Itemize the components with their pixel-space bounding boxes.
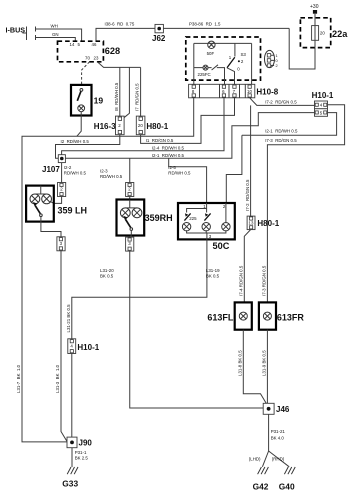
wire I8 RD/WH 0.5 to H16-3 xyxy=(119,67,121,116)
switch lever A in 50C label 225 xyxy=(184,213,190,220)
lamp 3 in 50C xyxy=(222,223,230,231)
svg-text:225FC: 225FC xyxy=(198,72,211,77)
svg-text:I2-3: I2-3 xyxy=(100,168,108,173)
wire 225FC to H10-8 pin 8 xyxy=(193,68,195,85)
svg-text:J62: J62 xyxy=(152,34,166,43)
connector position indicator oval xyxy=(265,50,279,68)
wire 359LH pin 3 ground xyxy=(41,217,61,237)
svg-text:H80-1: H80-1 xyxy=(146,122,168,131)
svg-text:I-BUS: I-BUS xyxy=(6,26,26,35)
svg-text:WH: WH xyxy=(51,24,58,29)
svg-text:RD/WH 0.5: RD/WH 0.5 xyxy=(100,174,123,179)
svg-text:359RH: 359RH xyxy=(145,213,173,223)
svg-text:I2 RD/WH 0.5: I2 RD/WH 0.5 xyxy=(61,139,90,144)
wire 628 pin 23 illumination feed xyxy=(97,62,140,68)
svg-text:I1 RD/GN 0.5: I1 RD/GN 0.5 xyxy=(146,138,174,143)
svg-text:BK 2.5: BK 2.5 xyxy=(75,456,89,461)
svg-text:BK 4.0: BK 4.0 xyxy=(271,435,285,440)
wire I1 RD/GN 0.5 H80-1 to H10-8 pin 7 xyxy=(141,98,235,144)
wire I7-3 RD/GN 0.5 pin 4 right to 613FR xyxy=(267,105,344,303)
svg-text:J107: J107 xyxy=(42,165,60,174)
wire I7-2 RD/GN 0.5 pin 10 to H10-1 pin 4 xyxy=(250,98,315,106)
svg-text:628: 628 xyxy=(105,46,120,56)
lamp tie wire in 359RH xyxy=(125,200,137,208)
ground bus wire to J90 xyxy=(22,98,194,442)
junction J46 xyxy=(263,403,274,414)
svg-text:BK 0.5: BK 0.5 xyxy=(206,274,220,279)
S3 lever xyxy=(227,57,235,68)
svg-text:(LHD): (LHD) xyxy=(249,456,261,461)
lamp A in 359RH xyxy=(120,208,130,218)
lamp in 19 xyxy=(78,105,85,112)
svg-text:L31-21 BK 0.5: L31-21 BK 0.5 xyxy=(66,304,71,333)
headlamp switch dashed box xyxy=(186,37,261,80)
wire I7 RD/GN 0.5 to H80-1 xyxy=(140,67,142,116)
svg-text:RD/WH 0.5: RD/WH 0.5 xyxy=(64,171,87,176)
svg-text:613FL: 613FL xyxy=(207,313,234,323)
svg-text:L31-9 BK 0.5: L31-9 BK 0.5 xyxy=(262,350,267,376)
I-BUS connector ticks xyxy=(35,27,37,41)
wire I38-6 RD 0.75 top bus from 628 pin 46 to right xyxy=(96,28,289,41)
svg-text:13: 13 xyxy=(249,220,254,225)
svg-text:I38-6 RD 0.75: I38-6 RD 0.75 xyxy=(105,22,135,27)
lamp in 613FR xyxy=(263,312,271,320)
ground branch LHD xyxy=(262,451,268,467)
svg-text:I2-1 RD/WH 0.5: I2-1 RD/WH 0.5 xyxy=(265,129,298,134)
svg-text:613FR: 613FR xyxy=(277,313,305,323)
wire conn2 into 359LH xyxy=(50,197,61,204)
svg-text:50F: 50F xyxy=(207,51,215,56)
contact circle in 359LH xyxy=(40,214,43,217)
lamp 2 in 50C xyxy=(202,223,210,231)
wire I7-2 branch to H80-1 pin 13 xyxy=(250,105,252,216)
wire I2-3 to 359RH xyxy=(129,158,131,182)
ground G40 xyxy=(284,467,295,474)
wire L31-9 BK 0.5 from 613FR to J46 xyxy=(266,330,268,404)
switch box 19 xyxy=(71,85,92,116)
wire GN from I-BUS to 628 pin 14 xyxy=(36,38,76,42)
fuse 20 xyxy=(312,26,319,41)
feed wire inside 50C xyxy=(187,203,207,213)
svg-text:J90: J90 xyxy=(79,438,93,447)
svg-text:I7-2 RD/GN 0.5: I7-2 RD/GN 0.5 xyxy=(265,99,297,104)
S3 common to pin 7 xyxy=(227,68,235,85)
svg-text:G40: G40 xyxy=(279,482,295,492)
svg-text:S3: S3 xyxy=(241,52,247,57)
wire P31-21 BK 4.0 xyxy=(268,414,270,451)
switch lever B in 50C xyxy=(204,213,210,220)
wire lamp3 to pin 2 xyxy=(225,203,227,223)
svg-text:I7-2 RD/GN 0.5: I7-2 RD/GN 0.5 xyxy=(245,179,250,211)
fog lamp 613FR box xyxy=(259,302,276,329)
connector H80-1 pin 13 xyxy=(247,216,255,230)
lamp tie wire in 359LH xyxy=(35,186,47,194)
wire lamp 19 to ground bus xyxy=(77,112,81,137)
svg-text:20: 20 xyxy=(320,31,325,36)
ground branch RHD xyxy=(269,451,290,467)
svg-text:G33: G33 xyxy=(62,479,78,489)
connector 2 of 359RH xyxy=(126,183,134,197)
connector H16-3 xyxy=(116,116,125,135)
lamp A in 359LH xyxy=(30,194,40,204)
svg-text:I7 RD/GN 0.5: I7 RD/GN 0.5 xyxy=(135,83,140,111)
selector arrow in 359RH xyxy=(126,220,131,228)
svg-text:+30: +30 xyxy=(310,4,319,10)
lamp bottoms tie to pin 3 xyxy=(187,230,226,239)
wire I7-4 RD/GN 0.5 to 613FL xyxy=(244,230,250,303)
svg-text:L31-3 BK 1.0: L31-3 BK 1.0 xyxy=(55,364,60,393)
connector H10-1 top right xyxy=(315,101,328,116)
connector 2 of 359LH xyxy=(58,183,66,197)
svg-text:H10-8: H10-8 xyxy=(256,88,278,97)
lamp 1 in 50C xyxy=(182,223,190,231)
lamp B in 359LH xyxy=(42,194,52,204)
svg-text:I2-4 RD/WH 0.5: I2-4 RD/WH 0.5 xyxy=(152,146,185,151)
ground G33 xyxy=(67,467,78,474)
svg-text:L31-7 BK 1.0: L31-7 BK 1.0 xyxy=(16,364,21,393)
wire stub to H16-3 top xyxy=(121,67,130,120)
wire P31-1 BK 2.5 to G33 xyxy=(71,448,73,467)
svg-text:19: 19 xyxy=(94,95,104,105)
wire I2-1 RD/WH 0.5 right to 50C pin 2 riser xyxy=(242,113,337,136)
I-BUS bracket xyxy=(23,27,27,41)
ground G42 xyxy=(258,467,269,474)
svg-text:70: 70 xyxy=(85,56,90,61)
switch contact in 19 xyxy=(80,89,83,92)
dashed wire 628 pin 70 to switch 19 xyxy=(82,62,90,85)
svg-text:359 LH: 359 LH xyxy=(58,205,88,215)
wire to 50C pin 2 xyxy=(226,135,242,203)
wire I2-2 RD/WH 0.5 J107 to 359LH xyxy=(61,163,63,183)
connector 3 of 359LH xyxy=(57,237,65,251)
wire 50F row xyxy=(194,43,252,67)
svg-text:RD/WH 0.5: RD/WH 0.5 xyxy=(168,171,191,176)
svg-text:P38-86 RD 1.5: P38-86 RD 1.5 xyxy=(189,22,221,27)
svg-text:I2-1 RD/WH 0.5: I2-1 RD/WH 0.5 xyxy=(152,153,185,158)
wire top row to pin 10 xyxy=(251,43,253,84)
wire L31-21 BK 0.5 to J90 xyxy=(71,354,73,438)
svg-text:G42: G42 xyxy=(253,482,269,492)
connector H10-1 left xyxy=(68,339,76,354)
wire L31-3 BK 1.0 to J90 xyxy=(61,251,67,442)
svg-text:10: 10 xyxy=(247,89,252,94)
wire I2-5 RD/WH 0.5 to 50C pin 1 xyxy=(169,158,207,203)
contact circle in 359RH xyxy=(130,228,133,231)
fuse holder 22a dashed box xyxy=(300,18,330,48)
svg-text:I2-2: I2-2 xyxy=(64,165,72,170)
lamp 50F xyxy=(208,41,215,48)
wire L31-20 BK 0.5 to J46 xyxy=(130,251,263,408)
lamp unit 359 LH box xyxy=(26,186,54,222)
svg-text:H80-1: H80-1 xyxy=(257,219,279,228)
switch contact 225FC xyxy=(194,65,225,85)
wire from top bus to fuse 22a xyxy=(289,28,315,69)
lamp 225FC xyxy=(203,65,208,70)
hazard switch 50C box xyxy=(178,203,235,239)
connector strip H10-8 xyxy=(189,84,255,98)
switch lever in 19 xyxy=(77,91,81,101)
junction J62 xyxy=(155,24,163,32)
connector H80-1 pin 20 xyxy=(136,116,145,135)
lamp unit 359RH box xyxy=(117,200,145,236)
wire 359RH pin 3 xyxy=(130,230,132,237)
svg-text:H16-3: H16-3 xyxy=(94,122,116,131)
svg-text:P31-1: P31-1 xyxy=(75,450,87,455)
junction J90 xyxy=(67,437,77,448)
svg-text:23: 23 xyxy=(94,56,99,61)
svg-text:I7-3 RD/GN 0.5: I7-3 RD/GN 0.5 xyxy=(262,265,267,296)
lamp B in 359RH xyxy=(132,208,142,218)
selector arrow in 359LH xyxy=(35,206,40,214)
svg-text:(RHD): (RHD) xyxy=(272,456,285,461)
wire I2 RD/WH 0.5 from H16-3 to J107 xyxy=(56,135,120,159)
svg-text:22a: 22a xyxy=(332,29,348,39)
wire from +30 to fuse xyxy=(314,14,316,26)
svg-text:I7-3 RD/GN 0.5: I7-3 RD/GN 0.5 xyxy=(265,138,297,143)
svg-text:L31-8 BK 0.5: L31-8 BK 0.5 xyxy=(238,350,243,376)
svg-text:I7-4 RD/GN 0.5: I7-4 RD/GN 0.5 xyxy=(239,265,244,296)
svg-text:L31-19: L31-19 xyxy=(206,268,220,273)
svg-text:P31-21: P31-21 xyxy=(271,429,286,434)
svg-text:46: 46 xyxy=(92,42,97,47)
svg-text:50C: 50C xyxy=(213,241,230,251)
wire I2-1 RD/WH 0.5 from J107 to H10-1 pin 5 xyxy=(65,113,314,159)
svg-text:L31-20: L31-20 xyxy=(100,268,114,273)
wire WH from I-BUS to 628 pin 5 xyxy=(36,29,82,41)
svg-text:H10-1: H10-1 xyxy=(312,91,334,100)
module 628 dashed box xyxy=(58,41,104,62)
connector 3 of 359RH xyxy=(126,237,134,251)
svg-text:I2-5: I2-5 xyxy=(168,165,176,170)
svg-text:I8 RD/WH 0.5: I8 RD/WH 0.5 xyxy=(114,82,119,111)
wire I2-4 RD/WH 0.5 H10-8 pin 6 to J107 xyxy=(62,98,224,155)
svg-text:BK 0.5: BK 0.5 xyxy=(100,274,114,279)
fog lamp 613FL box xyxy=(235,302,252,329)
svg-text:GN: GN xyxy=(52,32,59,37)
svg-text:20: 20 xyxy=(138,123,143,128)
lamp in 613FL xyxy=(239,312,247,320)
wire L31-19 BK 0.5 from 50C pin 3 xyxy=(72,239,207,338)
svg-text:14: 14 xyxy=(70,42,75,47)
svg-text:J46: J46 xyxy=(276,405,290,414)
svg-text:225: 225 xyxy=(189,216,197,221)
svg-text:H10-1: H10-1 xyxy=(77,343,99,352)
junction J107 xyxy=(58,155,65,163)
svg-text:2: 2 xyxy=(276,63,278,68)
wire L31-8 BK 0.5 from 613FL to J46 xyxy=(243,330,266,404)
